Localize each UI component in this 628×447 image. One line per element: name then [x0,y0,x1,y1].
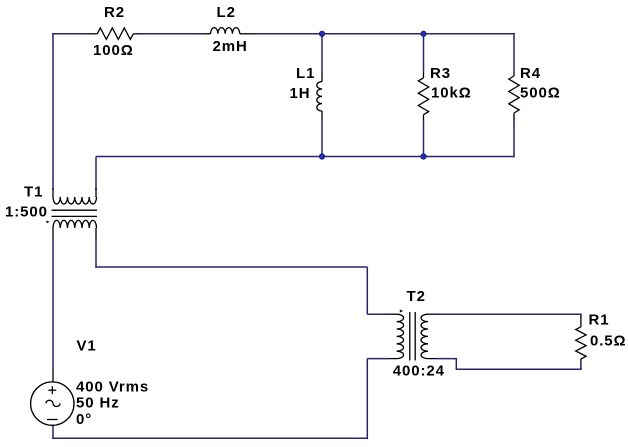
wire V1 bottom [52,425,54,439]
svg-text:50 Hz: 50 Hz [76,395,120,412]
wire T1 right down [95,240,97,268]
wire R1 top lead [580,314,582,317]
wire top rail seg1 [52,33,87,35]
wire top rail seg3 [255,33,515,35]
wire R3 branch upper [423,34,425,72]
junction dot mid R3 [421,154,426,159]
wire right branch upper [513,33,515,72]
svg-text:400 Vrms: 400 Vrms [76,379,149,396]
svg-text:T2: T2 [407,288,426,305]
wire mid rail [96,156,515,158]
svg-text:0.5Ω: 0.5Ω [590,333,626,350]
wire to T2 primary top [367,313,389,315]
resistor R1 [576,316,586,364]
svg-text:1H: 1H [290,85,311,102]
svg-text:1:500: 1:500 [5,204,48,221]
T2 phase marker [400,309,403,312]
resistor R2 [87,28,141,40]
wire T2 secondary top to R1 [436,313,582,315]
inductor L2 [203,28,255,34]
svg-text:400:24: 400:24 [393,363,445,380]
svg-text:100Ω: 100Ω [93,42,134,59]
junction dot top R3 [421,31,426,36]
svg-text:R1: R1 [589,312,610,329]
wire L1 branch lower [321,121,323,157]
wire vertical x367 upper [366,267,368,314]
wire horizontal y267 [95,266,367,268]
transformer T2 [389,312,436,361]
wire top-left vertical [52,34,54,190]
svg-text:L1: L1 [296,65,315,82]
transformer T1 [52,188,98,240]
svg-text:T1: T1 [24,184,43,201]
resistor R3 [418,72,428,121]
wire T1 right vertical [95,157,97,191]
svg-text:R4: R4 [520,65,541,82]
junction dot mid L1 [319,154,324,159]
T1 phase marker [47,221,50,224]
svg-text:2mH: 2mH [213,38,248,55]
wire T2 primary bottom to x367 [367,358,389,360]
svg-text:V1: V1 [77,337,97,354]
wire R1 bottom lead [580,364,582,370]
source V1 [31,370,74,425]
wire step vertical x456 [455,359,457,370]
wire R3 branch lower [423,121,425,157]
svg-text:10kΩ: 10kΩ [431,85,472,102]
svg-text:0°: 0° [76,411,92,428]
wire R1 bottom horizontal [456,368,581,370]
svg-text:R3: R3 [430,65,451,82]
svg-text:L2: L2 [217,4,236,21]
inductor L1 [317,73,322,121]
svg-text:R2: R2 [104,4,125,21]
wire L1 branch upper [321,34,323,73]
wire right branch lower [513,124,515,158]
wire T2 secondary bottom [436,358,457,360]
wire vertical x367 lower [366,359,368,440]
junction dot top L1 [319,31,324,36]
svg-text:500Ω: 500Ω [520,84,561,101]
resistor R4 [509,72,519,124]
wire top rail seg2 [141,33,203,35]
wire bottom rail [52,437,368,439]
wire T1 to V1 vertical [52,240,54,370]
